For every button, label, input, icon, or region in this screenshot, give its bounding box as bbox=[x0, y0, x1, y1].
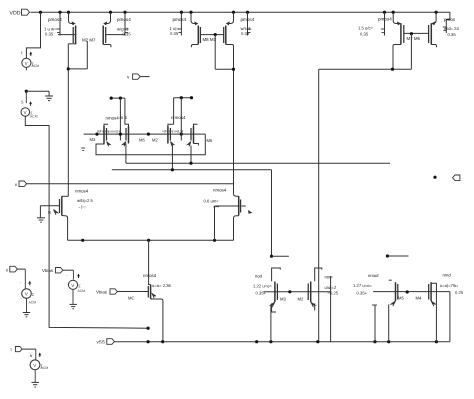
svg-text:N: N bbox=[30, 354, 33, 358]
svg-text:u=o|=75u: u=o|=75u bbox=[440, 283, 458, 288]
svg-text:M3: M3 bbox=[90, 137, 96, 142]
svg-text:pmos4: pmos4 bbox=[378, 17, 392, 22]
svg-text:pmos4: pmos4 bbox=[48, 17, 62, 22]
svg-text:ACM: ACM bbox=[32, 64, 40, 68]
svg-text:nmod: nmod bbox=[368, 273, 379, 278]
svg-text:M4: M4 bbox=[416, 296, 422, 301]
svg-text:u=o= 2.36: u=o= 2.36 bbox=[152, 283, 172, 288]
svg-text:nm<: nm< bbox=[325, 275, 334, 280]
svg-text:M3: M3 bbox=[280, 297, 286, 302]
svg-text:Vbias: Vbias bbox=[42, 268, 54, 273]
svg-text:M2 M7: M2 M7 bbox=[82, 37, 96, 42]
svg-text:nod: nod bbox=[255, 273, 263, 278]
svg-text:0.35+: 0.35+ bbox=[256, 290, 267, 295]
svg-text:nmos4: nmos4 bbox=[106, 116, 120, 121]
svg-text:0.35: 0.35 bbox=[360, 32, 369, 37]
svg-text:u/o|=2: u/o|=2 bbox=[325, 285, 337, 290]
svg-text:M5: M5 bbox=[398, 296, 404, 301]
svg-text:V: V bbox=[33, 363, 36, 368]
svg-text::: : bbox=[462, 176, 463, 181]
svg-text:1.5 u/c=: 1.5 u/c= bbox=[358, 25, 374, 30]
svg-text:0.35: 0.35 bbox=[45, 32, 54, 37]
svg-text:nmos4: nmos4 bbox=[75, 188, 89, 193]
svg-text:0.35: 0.35 bbox=[241, 31, 250, 36]
svg-text:Vbias: Vbias bbox=[96, 290, 108, 295]
svg-text:ACM: ACM bbox=[78, 289, 86, 293]
svg-text:M5: M5 bbox=[139, 138, 145, 143]
svg-text:m 4: m 4 bbox=[120, 115, 128, 120]
svg-text:w/b|=2.5: w/b|=2.5 bbox=[77, 198, 94, 203]
svg-text:pmos: pmos bbox=[444, 17, 456, 22]
svg-text:ACM: ACM bbox=[41, 366, 49, 370]
svg-text:↦+: ↦+ bbox=[214, 204, 220, 209]
svg-text:V: V bbox=[25, 61, 28, 66]
svg-text:pmos4: pmos4 bbox=[241, 17, 255, 22]
svg-text:0.35: 0.35 bbox=[170, 31, 179, 36]
svg-text:nmos4: nmos4 bbox=[143, 273, 157, 278]
svg-text:1.22 u=o=: 1.22 u=o= bbox=[253, 283, 272, 288]
svg-text:0.35: 0.35 bbox=[123, 32, 132, 37]
svg-text:M2: M2 bbox=[152, 137, 158, 142]
svg-text:4|Fnom|nom|L4: 4|Fnom|nom|L4 bbox=[97, 130, 121, 134]
svg-text:+|Fu|=|ro=|L|4: +|Fu|=|ro=|L|4 bbox=[162, 130, 183, 134]
svg-text:nmos4: nmos4 bbox=[213, 187, 227, 192]
svg-text:R: R bbox=[48, 210, 51, 215]
svg-text:0.35: 0.35 bbox=[448, 32, 457, 37]
svg-text:M2: M2 bbox=[298, 297, 304, 302]
svg-text:nmd: nmd bbox=[443, 272, 452, 277]
svg-text:w/d= 24: w/d= 24 bbox=[444, 26, 459, 31]
svg-text:0.6 um=: 0.6 um= bbox=[204, 198, 220, 203]
svg-text:0.35+: 0.35+ bbox=[357, 291, 368, 296]
svg-text:VDD: VDD bbox=[10, 11, 21, 17]
svg-text:ACM: ACM bbox=[30, 115, 38, 119]
svg-text:pmos4: pmos4 bbox=[173, 17, 187, 22]
svg-text:→|—: →|— bbox=[77, 204, 86, 209]
svg-text:n mos4: n mos4 bbox=[171, 115, 186, 120]
svg-text:M6: M6 bbox=[207, 138, 213, 143]
svg-text:M7 M6: M7 M6 bbox=[407, 36, 421, 41]
svg-text:V: V bbox=[71, 283, 74, 288]
svg-text:V: V bbox=[24, 110, 27, 115]
svg-text:0.25: 0.25 bbox=[455, 290, 464, 295]
svg-text:=0.25: =0.25 bbox=[328, 290, 339, 295]
svg-text:pmos4: pmos4 bbox=[117, 17, 131, 22]
svg-text:V: V bbox=[25, 292, 28, 297]
svg-text:vSS: vSS bbox=[97, 339, 105, 344]
svg-text:1.27 u=o=: 1.27 u=o= bbox=[353, 283, 372, 288]
svg-text:MC: MC bbox=[128, 295, 135, 300]
svg-text:M8 M3: M8 M3 bbox=[203, 37, 217, 42]
svg-text:ACM: ACM bbox=[29, 301, 37, 305]
